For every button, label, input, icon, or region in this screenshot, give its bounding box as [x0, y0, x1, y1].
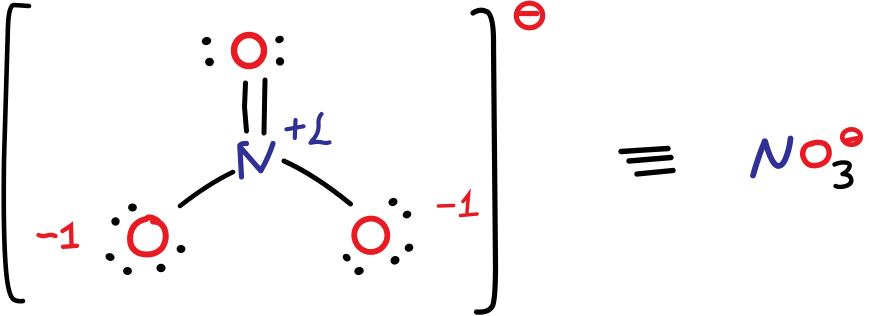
equivalence sign — [621, 149, 673, 175]
bond N-O right — [284, 161, 351, 204]
lone pair dots left O — [104, 204, 185, 276]
formula charge symbol (circled minus) — [842, 129, 860, 144]
formal charge -1 left O — [39, 226, 78, 247]
atom O left — [130, 217, 166, 254]
bracket charge symbol (circled minus) — [516, 3, 542, 28]
double bond N=O — [245, 80, 266, 133]
formula N — [753, 139, 791, 176]
right bracket — [473, 10, 496, 312]
atom N — [240, 143, 273, 177]
formal charge -1 right O — [439, 195, 478, 216]
atom O right — [352, 216, 390, 255]
lone pair dots top O — [201, 35, 285, 67]
formal charge +1 on N — [287, 114, 330, 143]
lone pair dots right O — [341, 196, 415, 276]
atom O top — [234, 35, 264, 66]
formula O — [803, 142, 829, 165]
left bracket — [4, 5, 29, 301]
bond N-O left — [180, 172, 233, 206]
formula subscript 3 — [835, 162, 852, 187]
